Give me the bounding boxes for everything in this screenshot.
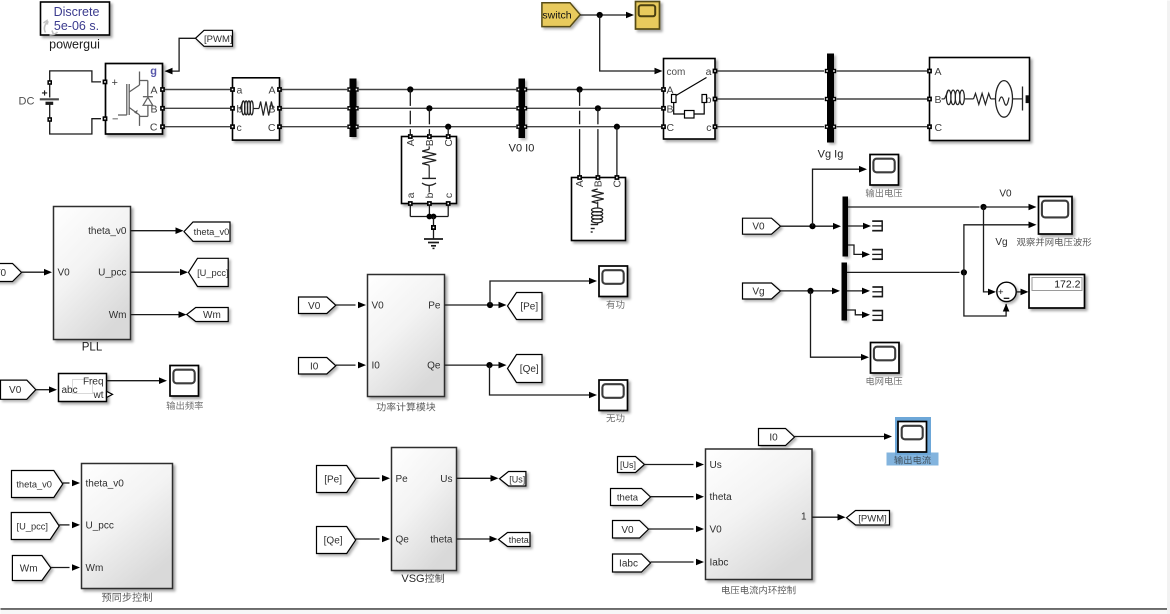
svg-text:g: g [150, 66, 157, 78]
svg-text:[Us]: [Us] [509, 474, 525, 484]
svg-text:theta_v0: theta_v0 [86, 479, 125, 490]
svg-text:172.2: 172.2 [1054, 278, 1080, 290]
svg-text:V0: V0 [621, 525, 634, 536]
svg-text:[Us]: [Us] [620, 460, 636, 470]
svg-text:C: C [150, 122, 158, 134]
svg-text:[U_pcc]: [U_pcc] [16, 522, 48, 532]
svg-text:A: A [268, 85, 275, 97]
svg-text:U_pcc: U_pcc [98, 268, 126, 279]
svg-text:Pe: Pe [428, 301, 441, 312]
svg-text:abc: abc [62, 385, 78, 396]
svg-text:I0: I0 [372, 361, 381, 372]
svg-text:Vg Ig: Vg Ig [818, 149, 844, 161]
svg-text:Wm: Wm [20, 564, 38, 575]
svg-text:theta_v0: theta_v0 [194, 227, 230, 237]
svg-text:+: + [112, 77, 118, 89]
svg-text:switch: switch [542, 10, 571, 22]
svg-text:I0: I0 [310, 361, 319, 372]
svg-text:theta: theta [430, 535, 453, 546]
svg-text:A: A [574, 180, 586, 187]
svg-text:Wm: Wm [86, 563, 104, 574]
svg-text:c: c [443, 193, 455, 198]
svg-text:PLL: PLL [82, 342, 103, 354]
svg-text:theta: theta [710, 492, 733, 503]
svg-text:Vg: Vg [995, 237, 1007, 248]
svg-text:C: C [268, 122, 276, 134]
svg-text:V0: V0 [752, 222, 765, 233]
svg-text:Iabc: Iabc [710, 558, 729, 569]
svg-text:V0: V0 [308, 301, 321, 312]
svg-text:V0: V0 [372, 301, 385, 312]
svg-text:A: A [150, 85, 157, 97]
svg-text:Qe: Qe [427, 361, 441, 372]
svg-text:V0: V0 [9, 385, 22, 396]
svg-text:Wm: Wm [109, 310, 127, 321]
svg-text:A: A [935, 66, 942, 78]
svg-text:theta_v0: theta_v0 [16, 480, 52, 490]
svg-text:[PWM]: [PWM] [858, 513, 887, 524]
svg-text:B: B [667, 104, 674, 116]
svg-text:C: C [443, 139, 455, 147]
svg-text:b: b [424, 192, 436, 198]
svg-text:[Qe]: [Qe] [520, 364, 539, 375]
svg-text:Iabc: Iabc [619, 559, 638, 570]
svg-text:c: c [706, 122, 711, 134]
svg-text:a: a [706, 66, 712, 78]
svg-text:[PWM]: [PWM] [204, 34, 233, 45]
svg-text:B: B [935, 94, 942, 106]
svg-text:powergui: powergui [49, 38, 100, 52]
svg-text:U_pcc: U_pcc [86, 521, 114, 532]
svg-text:[U_pcc]: [U_pcc] [197, 268, 229, 278]
svg-text:Discrete: Discrete [54, 5, 100, 19]
svg-text:[Pe]: [Pe] [520, 302, 538, 313]
svg-text:5e-06 s.: 5e-06 s. [54, 19, 99, 33]
svg-text:wt: wt [93, 390, 104, 401]
svg-text:I0: I0 [769, 433, 778, 444]
svg-text:[Pe]: [Pe] [324, 475, 342, 486]
svg-text:a: a [237, 85, 243, 97]
svg-text:[Qe]: [Qe] [324, 536, 343, 547]
svg-text:C: C [935, 122, 943, 134]
svg-text:C: C [667, 122, 675, 134]
svg-text:+: + [998, 287, 1004, 298]
svg-text:V0: V0 [710, 525, 723, 536]
svg-text:theta: theta [509, 535, 529, 545]
svg-text:V0: V0 [0, 268, 7, 279]
svg-text:Pe: Pe [396, 474, 409, 485]
svg-text:Us: Us [710, 460, 722, 471]
svg-text:V0: V0 [999, 189, 1012, 200]
svg-text:VSG: VSG [401, 573, 424, 585]
svg-text:C: C [612, 180, 624, 188]
svg-text:1: 1 [801, 512, 807, 523]
svg-text:B: B [424, 139, 436, 146]
svg-text:B: B [593, 180, 605, 187]
svg-text:V0 I0: V0 I0 [509, 143, 535, 155]
svg-text:Wm: Wm [203, 310, 221, 321]
svg-text:Qe: Qe [396, 535, 410, 546]
svg-text:com: com [667, 67, 686, 78]
svg-text:a: a [405, 192, 417, 198]
svg-text:Freq: Freq [83, 377, 104, 388]
svg-text:Vg: Vg [752, 287, 764, 298]
svg-text:theta_v0: theta_v0 [88, 226, 127, 237]
svg-text:theta: theta [617, 493, 639, 504]
svg-text:c: c [237, 122, 242, 134]
svg-text:Us: Us [440, 474, 452, 485]
svg-text:+: + [42, 88, 48, 100]
svg-text:−: − [112, 114, 118, 126]
svg-text:V0: V0 [58, 268, 71, 279]
svg-text:DC: DC [19, 96, 35, 108]
svg-text:A: A [405, 139, 417, 146]
